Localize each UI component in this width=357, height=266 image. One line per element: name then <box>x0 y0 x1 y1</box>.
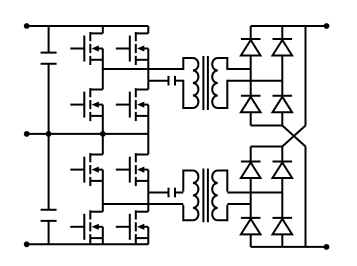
wire top input rail <box>27 25 149 27</box>
wire T1 secondary bottom to rectifier <box>227 80 282 82</box>
wire node A to primary T1 <box>103 68 184 70</box>
wire D5 cathode lead <box>250 147 252 162</box>
wire D7 anode lead <box>250 234 252 247</box>
diode D3 <box>241 96 261 113</box>
node VIN mid terminal <box>24 131 30 137</box>
wire D2 cathode lead <box>281 26 283 39</box>
wire Q5 drain to mid rail <box>102 134 104 155</box>
wire D3 cathode to node E <box>250 69 252 96</box>
transformer T1 core <box>203 56 208 110</box>
transistor Q6 <box>116 153 148 186</box>
inductor T2 secondary winding <box>212 171 227 221</box>
node VOUT+ terminal <box>324 23 330 29</box>
capacitor C2 <box>41 210 57 221</box>
wire D7 cathode to node G <box>250 204 252 218</box>
wire Q3 source to mid rail <box>102 105 104 134</box>
wire C1 top lead <box>48 26 50 53</box>
wire node D to C4 <box>148 192 167 194</box>
wire Q4 drain to node B <box>147 81 149 90</box>
wire Q4 source to mid rail <box>147 105 149 134</box>
transistor Q4 <box>116 88 148 121</box>
transistor Q1 <box>70 32 102 65</box>
wire T1 secondary top to rectifier <box>227 68 250 70</box>
wire Q8 drain to node D <box>147 193 149 212</box>
wire D6 anode to node H <box>281 178 283 193</box>
wire D5 anode to node G <box>250 178 252 204</box>
transistor Q2 <box>116 32 148 65</box>
wire Q5 source to node C <box>102 170 104 204</box>
wire D2 anode to node F <box>281 56 283 81</box>
wire rectifier2 positive bus <box>251 146 283 148</box>
transformer T2 core <box>203 169 208 223</box>
wire rectifier1 negative bus <box>251 125 283 127</box>
node VOUT- terminal <box>324 244 330 250</box>
wire D8 cathode to node H <box>281 193 283 218</box>
diode D1 <box>241 39 261 56</box>
wire crossover from rectifier1 negative <box>282 126 305 147</box>
wire rectifier1 positive bus <box>251 25 327 27</box>
wire D1 anode to node E <box>250 56 252 70</box>
wire VOUT+ drop <box>305 26 307 126</box>
node cap column mid junction <box>46 131 52 137</box>
inductor T1 secondary winding <box>212 58 227 108</box>
wire crossover to rectifier2 positive <box>282 126 305 147</box>
diode D4 <box>273 96 293 113</box>
wire VOUT- drop <box>305 147 307 247</box>
node VIN- terminal <box>24 241 30 247</box>
wire middle input rail <box>27 133 149 135</box>
wire Q6 source to node D <box>147 170 149 193</box>
wire D6 cathode lead <box>281 147 283 162</box>
wire T2 secondary bottom to rectifier <box>227 203 250 205</box>
wire D8 anode lead <box>281 234 283 247</box>
capacitor C4 dc-block <box>169 188 176 198</box>
wire C1 bottom lead <box>48 64 50 134</box>
wire node B to C3 <box>148 80 167 82</box>
wire Q7 source to bottom rail <box>102 227 104 245</box>
wire D1 cathode lead <box>250 26 252 39</box>
capacitor C3 dc-block <box>169 76 176 86</box>
transistor Q8 <box>116 210 148 243</box>
inductor T1 primary winding <box>183 58 198 108</box>
wire C2 top lead <box>48 134 50 210</box>
wire Q7 drain to node C <box>102 204 104 212</box>
wire C4 to primary T2 <box>176 192 183 194</box>
node Q3-Q5 mid rail junction <box>100 131 106 137</box>
capacitor C1 <box>41 53 57 64</box>
wire D3 anode lead <box>250 112 252 125</box>
wire Q6 drain to mid rail <box>147 134 149 155</box>
wire C2 bottom lead <box>48 221 50 244</box>
wire node C to primary T2 <box>103 203 184 205</box>
wire bottom input rail <box>27 243 149 245</box>
wire D4 anode lead <box>281 112 283 125</box>
diode D8 <box>273 218 293 235</box>
wire Q1 source to node A <box>102 49 104 70</box>
wire T2 secondary top to rectifier <box>227 192 282 194</box>
wire Q1 drain to top rail <box>102 26 104 33</box>
wire C3 to primary T1 <box>176 80 183 82</box>
diode D6 <box>273 162 293 179</box>
wire Q3 drain to node A <box>102 69 104 90</box>
wire rectifier2 negative bus <box>251 246 327 248</box>
inductor T2 primary winding <box>183 171 198 221</box>
diode D5 <box>241 162 261 179</box>
wire Q2 drain to top rail <box>147 26 149 33</box>
transistor Q7 <box>70 210 102 243</box>
node VIN+ terminal <box>24 23 30 29</box>
wire Q2 source to node B <box>147 49 149 81</box>
wire D4 cathode to node F <box>281 81 283 96</box>
transistor Q5 <box>70 153 102 186</box>
wire Q8 source to bottom rail <box>147 227 149 245</box>
diode D2 <box>273 39 293 56</box>
transistor Q3 <box>70 88 102 121</box>
diode D7 <box>241 218 261 235</box>
